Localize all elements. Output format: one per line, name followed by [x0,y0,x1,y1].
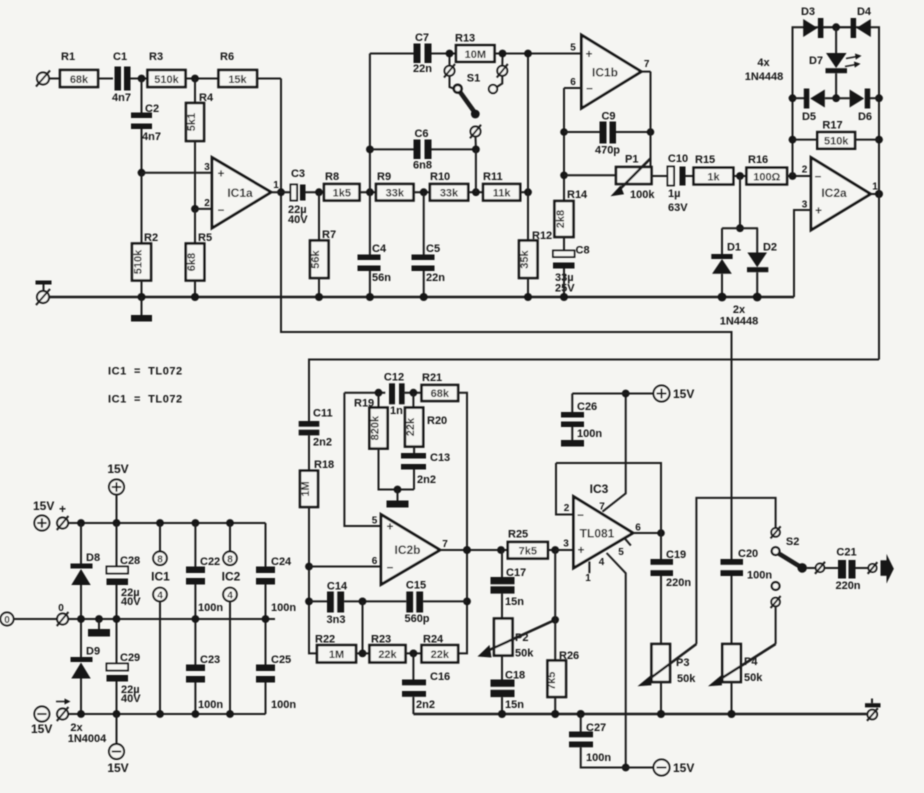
svg-text:R10: R10 [430,171,450,183]
svg-text:56n: 56n [372,272,391,284]
svg-text:R14: R14 [567,189,588,201]
svg-text:2n2: 2n2 [416,699,435,711]
svg-text:63V: 63V [668,202,688,214]
svg-text:15V: 15V [107,462,128,476]
svg-text:470p: 470p [595,145,620,157]
svg-text:6: 6 [372,556,378,567]
svg-text:R17: R17 [822,120,842,132]
svg-text:TL081: TL081 [580,527,615,541]
svg-text:R4: R4 [199,92,214,104]
svg-text:−: − [586,82,593,96]
svg-text:R23: R23 [371,634,391,646]
svg-text:1N4448: 1N4448 [745,71,784,83]
svg-text:68k: 68k [70,74,89,86]
svg-text:C20: C20 [738,548,758,560]
svg-text:5: 5 [372,516,378,527]
svg-text:7k5: 7k5 [519,546,537,558]
svg-text:4n7: 4n7 [142,131,161,143]
svg-text:2n2: 2n2 [417,474,436,486]
svg-text:C16: C16 [430,671,450,683]
svg-text:C19: C19 [666,549,686,561]
svg-text:C12: C12 [384,372,404,384]
svg-text:R25: R25 [508,529,528,541]
svg-text:P1: P1 [625,154,638,166]
svg-text:C13: C13 [430,452,450,464]
svg-text:C10: C10 [668,153,688,165]
svg-text:4x: 4x [757,57,770,69]
svg-text:D4: D4 [857,6,872,18]
svg-text:560p: 560p [404,613,429,625]
svg-text:100n: 100n [198,602,223,614]
svg-text:1k5: 1k5 [333,188,351,200]
svg-text:50k: 50k [515,648,534,660]
svg-text:22k: 22k [405,417,417,436]
svg-text:C29: C29 [120,652,140,664]
svg-text:220n: 220n [666,577,691,589]
svg-text:IC1 = TL072: IC1 = TL072 [108,366,183,378]
svg-text:0: 0 [4,615,10,626]
svg-text:C26: C26 [577,401,597,413]
svg-text:S2: S2 [786,536,799,548]
svg-text:15n: 15n [505,699,524,711]
svg-text:40V: 40V [121,693,141,705]
svg-text:R9: R9 [377,171,391,183]
svg-text:−: − [386,561,393,575]
svg-text:5k1: 5k1 [186,113,198,131]
svg-text:15V: 15V [673,387,694,401]
svg-text:+: + [585,47,592,61]
svg-text:IC1: IC1 [151,570,170,584]
svg-text:5: 5 [618,547,624,558]
svg-text:6n8: 6n8 [413,160,432,172]
svg-text:10M: 10M [465,49,486,61]
svg-text:15n: 15n [505,596,524,608]
svg-text:40V: 40V [121,596,141,608]
svg-text:R15: R15 [695,154,715,166]
svg-text:40V: 40V [288,214,308,226]
svg-text:C27: C27 [586,722,606,734]
svg-text:C7: C7 [415,32,429,44]
svg-text:15V: 15V [673,761,694,775]
svg-text:IC2b: IC2b [394,543,420,557]
svg-text:15V: 15V [31,722,52,736]
svg-text:D8: D8 [86,552,100,564]
svg-text:50k: 50k [677,673,696,685]
svg-text:IC2: IC2 [222,570,241,584]
svg-text:15k: 15k [228,74,247,86]
svg-text:6: 6 [635,523,641,534]
svg-text:R22: R22 [315,634,335,646]
svg-text:R8: R8 [325,171,339,183]
svg-text:D6: D6 [858,111,872,123]
svg-text:7: 7 [644,59,650,70]
svg-text:100n: 100n [271,699,296,711]
svg-text:1k: 1k [707,171,720,183]
svg-text:D1: D1 [727,242,741,254]
svg-text:22n: 22n [426,272,445,284]
svg-text:+: + [59,502,66,516]
svg-text:D2: D2 [763,242,777,254]
svg-text:+: + [217,167,224,181]
svg-text:1M: 1M [300,481,312,496]
svg-text:100n: 100n [747,570,772,582]
svg-text:2n2: 2n2 [313,437,332,449]
svg-text:R26: R26 [559,650,579,662]
svg-text:IC1 = TL072: IC1 = TL072 [108,394,183,406]
svg-text:R1: R1 [61,51,75,63]
svg-text:−: − [814,170,821,184]
svg-text:2: 2 [802,165,808,176]
svg-text:1n: 1n [390,405,403,417]
svg-text:1: 1 [273,180,279,191]
svg-text:D3: D3 [801,6,815,18]
svg-text:R11: R11 [483,171,503,183]
svg-text:D9: D9 [86,646,100,658]
svg-text:+: + [815,204,822,218]
svg-text:S1: S1 [467,73,480,85]
svg-text:R6: R6 [220,51,234,63]
svg-text:−: − [577,508,584,522]
svg-text:6k8: 6k8 [186,253,198,271]
svg-text:C14: C14 [327,581,348,593]
svg-text:C3: C3 [291,168,305,180]
svg-text:C8: C8 [576,245,590,257]
svg-text:R18: R18 [314,459,334,471]
svg-text:50k: 50k [744,672,763,684]
svg-text:IC2a: IC2a [821,186,847,200]
svg-text:3n3: 3n3 [327,614,346,626]
svg-text:C21: C21 [836,547,856,559]
svg-text:3: 3 [204,162,210,173]
svg-text:C17: C17 [506,567,526,579]
svg-text:22k: 22k [431,649,450,661]
svg-text:C24: C24 [271,556,292,568]
svg-text:22n: 22n [413,63,432,75]
svg-text:100n: 100n [586,752,611,764]
svg-text:25V: 25V [555,283,575,295]
svg-text:7: 7 [442,539,448,550]
svg-text:15V: 15V [107,761,128,775]
svg-text:510k: 510k [133,249,145,274]
svg-text:33k: 33k [440,188,459,200]
svg-text:68k: 68k [431,388,450,400]
svg-text:2: 2 [204,198,210,209]
svg-text:R13: R13 [455,33,475,45]
svg-text:22k: 22k [378,649,397,661]
svg-text:4: 4 [227,591,233,602]
svg-text:100n: 100n [271,602,296,614]
svg-text:C22: C22 [200,556,220,568]
svg-text:R2: R2 [144,232,158,244]
svg-text:C9: C9 [601,111,615,123]
svg-text:1N4448: 1N4448 [720,316,759,328]
svg-text:510k: 510k [824,136,849,148]
svg-text:IC3: IC3 [590,482,609,496]
svg-text:C5: C5 [426,243,440,255]
svg-text:R20: R20 [427,415,447,427]
svg-text:C1: C1 [113,51,127,63]
svg-text:100n: 100n [577,428,602,440]
svg-text:C2: C2 [145,103,159,115]
svg-text:56k: 56k [310,249,322,268]
svg-text:4: 4 [157,591,163,602]
svg-text:C4: C4 [372,243,387,255]
svg-text:−: − [217,203,224,217]
svg-text:IC1b: IC1b [592,66,618,80]
svg-text:0: 0 [58,603,64,614]
svg-text:100k: 100k [630,189,655,201]
svg-text:C18: C18 [505,670,525,682]
svg-text:820k: 820k [370,415,382,440]
svg-text:35k: 35k [519,249,531,268]
svg-text:2k8: 2k8 [555,210,567,228]
svg-text:5: 5 [570,43,576,54]
svg-text:15V: 15V [33,499,54,513]
svg-text:100n: 100n [198,699,223,711]
svg-text:D5: D5 [802,111,816,123]
svg-text:R16: R16 [748,154,768,166]
svg-text:2x: 2x [733,304,746,316]
svg-text:C15: C15 [406,580,426,592]
svg-text:8: 8 [227,554,233,565]
svg-text:+: + [386,520,393,534]
svg-text:8: 8 [157,554,163,565]
svg-text:220n: 220n [835,580,860,592]
svg-text:3: 3 [802,200,808,211]
svg-text:1µ: 1µ [668,188,680,200]
svg-text:R7: R7 [322,229,336,241]
svg-text:4: 4 [599,557,605,568]
svg-text:C6: C6 [414,128,428,140]
svg-text:C25: C25 [271,654,291,666]
svg-text:R12: R12 [532,230,552,242]
svg-text:510k: 510k [154,74,179,86]
svg-text:C28: C28 [120,555,140,567]
svg-text:R3: R3 [149,51,163,63]
svg-text:4n7: 4n7 [112,92,131,104]
svg-text:D7: D7 [809,55,823,67]
svg-text:2: 2 [564,503,570,514]
svg-text:33k: 33k [386,188,405,200]
svg-text:1N4004: 1N4004 [68,733,107,745]
svg-text:1: 1 [585,573,591,584]
svg-text:C23: C23 [200,654,220,666]
svg-text:7k5: 7k5 [546,672,558,690]
svg-text:100Ω: 100Ω [753,171,780,183]
svg-text:R19: R19 [354,398,374,410]
svg-text:R5: R5 [198,232,212,244]
svg-text:IC1a: IC1a [227,186,253,200]
svg-text:1M: 1M [329,649,344,661]
svg-text:11k: 11k [493,188,512,200]
svg-text:R21: R21 [422,372,442,384]
svg-text:R24: R24 [423,634,444,646]
svg-text:3: 3 [563,539,569,550]
svg-text:6: 6 [570,77,576,88]
svg-text:C11: C11 [313,408,333,420]
svg-text:+: + [577,543,584,557]
